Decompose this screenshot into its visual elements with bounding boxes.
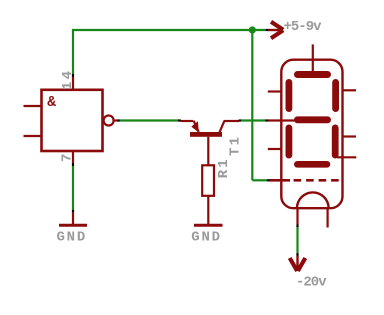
display bottom pin right [327,208,329,228]
pin 14 label [60,69,76,90]
junction dot node VCC [249,26,256,33]
segment d [294,161,330,168]
svg-text:7: 7 [60,151,76,162]
svg-text:-20v: -20v [296,274,327,290]
label +5-9v [284,19,323,35]
display left pin 1 [268,90,283,92]
display top pin [312,44,314,72]
segment a [294,71,331,78]
junction black U1 output [117,119,119,121]
label T1 [228,135,244,156]
filament lead solid part [269,179,290,182]
wire pin14 to top rail [72,30,74,75]
wire cathode to -20v [296,227,298,254]
display right pin 3 [337,156,356,158]
display tube base dome [297,192,329,208]
segment c [332,125,339,159]
supply arrow +5-9v [268,22,283,39]
pin 14 stub [72,77,74,90]
svg-text:T1: T1 [228,135,244,156]
display right pin 1 [342,89,357,91]
svg-text:R1: R1 [216,157,232,178]
wire top rail horizontal [72,29,266,31]
display left pin 2 to segment g [268,119,295,121]
junction black T1 collector [239,119,242,121]
segment f [286,79,293,112]
junction black before +5-9v arrow [266,29,269,31]
wire filament horizontal [252,179,267,181]
svg-text:GND: GND [191,230,222,246]
supply arrow -20v [290,256,306,272]
segment g [294,116,331,123]
pin 7 stub [72,151,74,164]
transistor T1 [181,121,240,166]
NAND gate U1 body [42,90,103,151]
U1 output inversion bubble [104,116,114,126]
resistor R1 [202,165,214,224]
junction black pin14 [72,74,74,77]
wire VCC down to filament [251,30,253,180]
GND symbol left pin [72,212,74,225]
svg-text:+5-9v: +5-9v [284,19,323,35]
ground label left [56,230,87,246]
display right pin 2 [342,135,357,137]
label -20v [296,274,327,290]
wire pin7 to GND [72,166,74,211]
ground bar right [194,224,223,227]
display left pin 3 [268,148,283,150]
junction black T1 emitter [178,119,181,121]
segment e [286,125,293,159]
wire T1 collector to display [241,119,266,121]
junction black display pin [266,119,269,121]
U1 input pin stub bottom [24,135,42,137]
junction black pin7 wire top [72,163,74,166]
ground label right [191,230,222,246]
U1 output pin stub [114,119,118,121]
segment b [332,79,339,112]
svg-text:GND: GND [56,230,87,246]
pin 7 label [60,151,76,162]
label R1 [216,157,232,178]
junction black gnd left [72,210,74,213]
wire U1 output to T1 emitter [119,119,179,121]
junction black filament wire end [267,179,270,181]
U1 input pin stub top [24,105,42,107]
filament dashed line [294,179,343,182]
ground bar left [59,224,87,227]
junction black before -20v arrow [296,253,298,256]
junction black display cathode pin [296,225,298,228]
display bottom pin left [296,207,298,225]
display tube DIS1 envelope [281,60,342,209]
svg-text:&: & [47,95,56,111]
